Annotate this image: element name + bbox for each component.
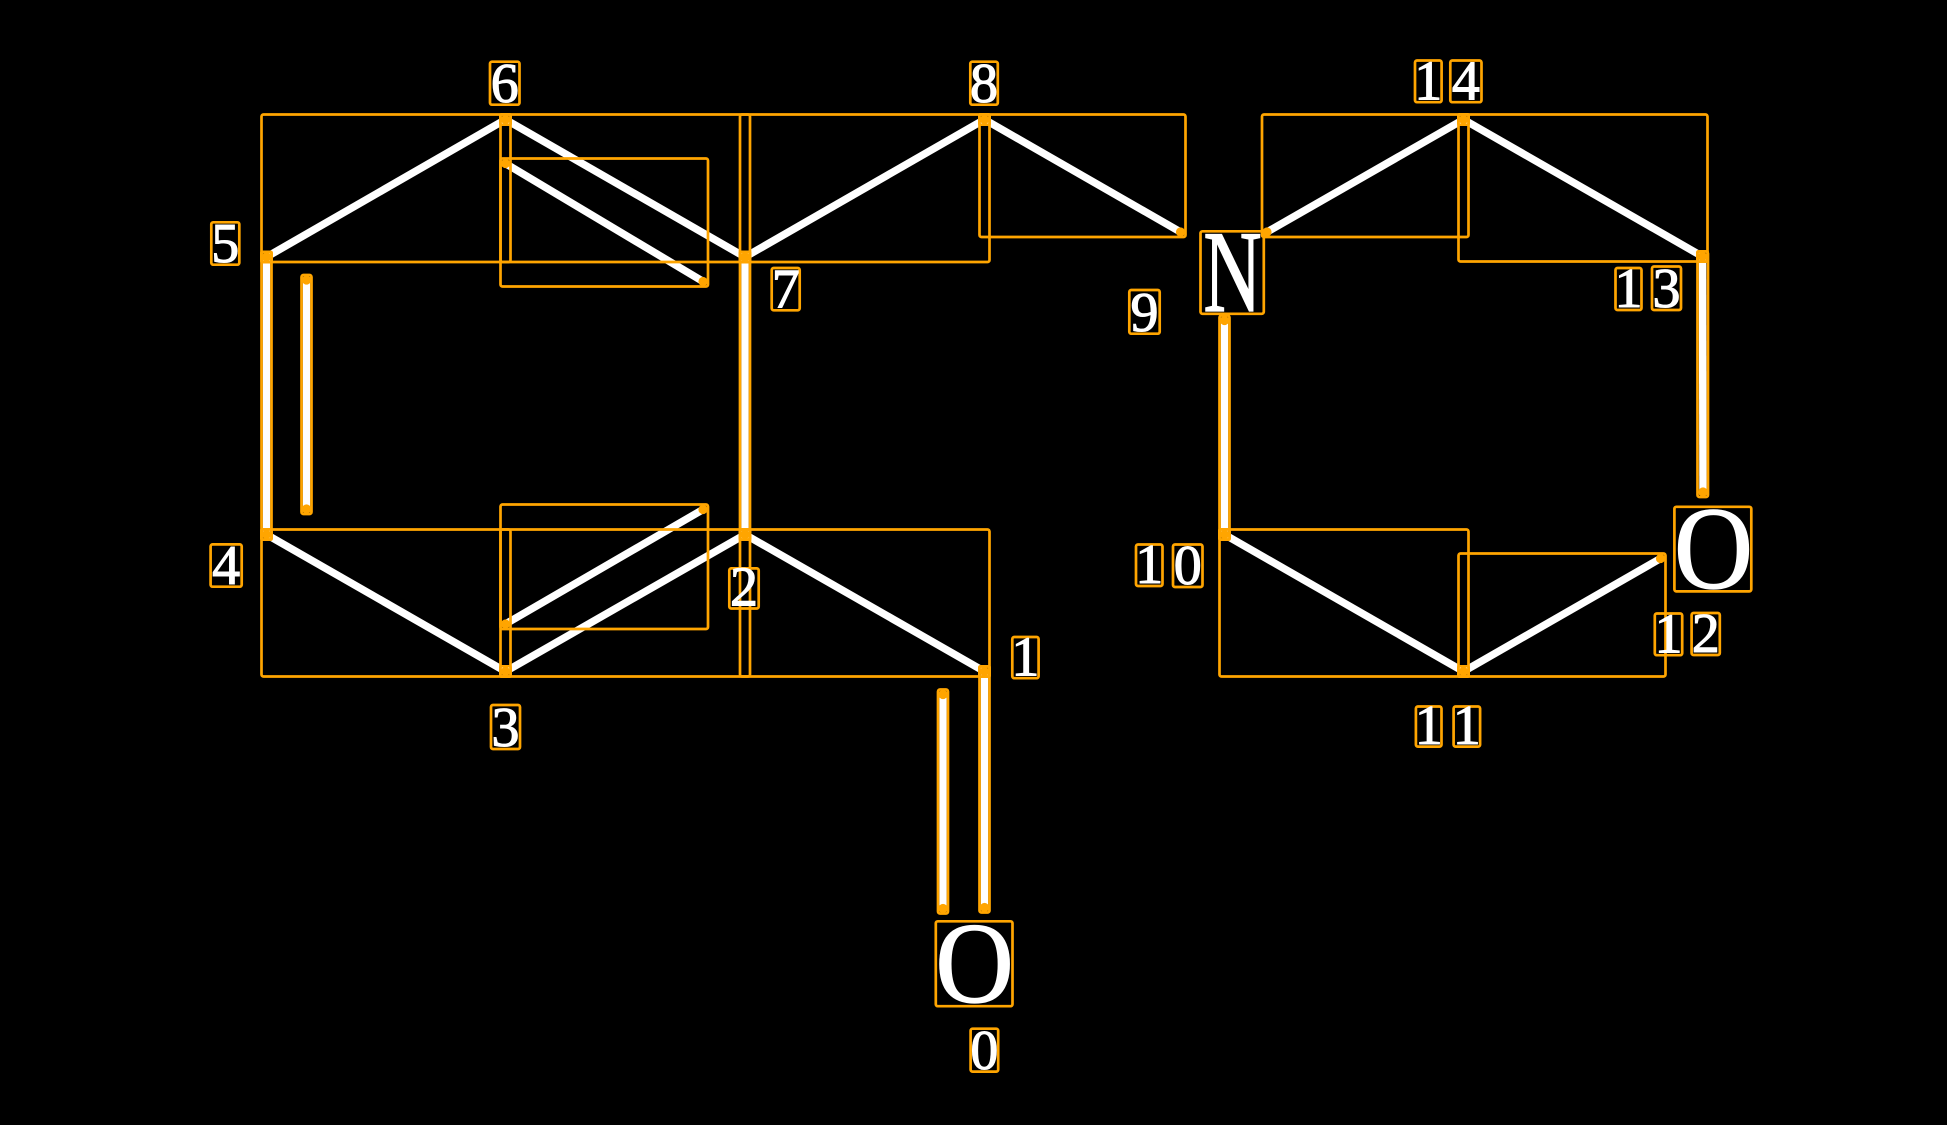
index label 1 bbox=[1011, 626, 1039, 688]
svg-text:1: 1 bbox=[1615, 258, 1643, 320]
bond 1-2 bbox=[745, 535, 985, 672]
atom 1 marker bbox=[979, 666, 989, 676]
bond 12-13 bbox=[1699, 257, 1707, 496]
svg-text:0: 0 bbox=[1174, 535, 1202, 597]
svg-text:O: O bbox=[1674, 483, 1753, 614]
svg-text:1: 1 bbox=[1655, 603, 1683, 665]
index label 11 bbox=[1415, 695, 1481, 757]
index label 2 bbox=[729, 557, 758, 619]
bond 9-10 bbox bbox=[1220, 316, 1230, 540]
bond 12-13 bbox bbox=[1698, 252, 1709, 498]
bond 11-12 start dot bbox=[1656, 554, 1665, 563]
index label 7 bbox=[772, 259, 800, 321]
bond 5-6 bbox bbox=[262, 115, 511, 263]
bond 6-7 main line bbox=[506, 120, 746, 258]
bond 0-1 inner line end dot bbox=[938, 904, 947, 913]
bond 2-3 inner line end dot bbox=[698, 505, 707, 514]
bond 6-7 main line bbox bbox=[501, 115, 751, 263]
index label 6 bbox=[490, 53, 520, 115]
atom 0 O label bbox bbox=[936, 921, 1013, 1006]
atom 10 marker bbox=[1219, 529, 1229, 539]
svg-text:1: 1 bbox=[1414, 50, 1442, 112]
atom 3 marker bbox=[500, 666, 510, 676]
bond 2-3 main line bbox bbox=[501, 530, 751, 677]
bond 13-14 bbox bbox=[1459, 115, 1708, 262]
atom 4 marker bbox=[261, 529, 271, 539]
index label 10 bbox=[1135, 534, 1202, 597]
atom 7 marker bbox=[740, 252, 750, 262]
bond 0-1 main line bbox=[981, 672, 989, 911]
bond 10-11 bbox=[1225, 535, 1464, 672]
index label 4 bbox=[211, 535, 242, 597]
svg-text:6: 6 bbox=[491, 53, 519, 115]
svg-text:4: 4 bbox=[1452, 50, 1480, 112]
svg-text:1: 1 bbox=[1011, 626, 1039, 688]
atom 12 O label bbox bbox=[1674, 507, 1751, 592]
index label 8 bbox=[970, 53, 998, 115]
atom 14 marker bbox=[1458, 114, 1468, 124]
svg-text:2: 2 bbox=[1692, 603, 1720, 665]
atom 11 marker bbox=[1458, 666, 1468, 676]
bond 3-4 bbox bbox=[262, 530, 511, 677]
bond 4-5 main line bbox bbox=[262, 252, 272, 540]
bond 4-5 inner line end dot bbox=[302, 504, 311, 513]
bond 4-5 inner line bbox bbox=[302, 275, 312, 514]
bond 4-5 main line bbox=[263, 257, 271, 535]
bond 12-13 end dot bbox=[1698, 487, 1707, 496]
svg-text:1: 1 bbox=[1135, 534, 1163, 596]
atom 6 marker bbox=[500, 114, 510, 124]
svg-text:7: 7 bbox=[772, 259, 800, 321]
bond 8-9 end dot bbox=[1176, 227, 1185, 236]
bond 0-1 inner line bbox=[939, 692, 947, 912]
bond 7-8 bbox=[745, 120, 985, 258]
atom 8 marker bbox=[979, 114, 989, 124]
svg-text:4: 4 bbox=[212, 535, 240, 597]
svg-text:5: 5 bbox=[211, 213, 239, 275]
bond 4-5 inner line start dot bbox=[302, 275, 311, 284]
svg-text:3: 3 bbox=[1653, 258, 1681, 320]
svg-text:0: 0 bbox=[970, 1020, 998, 1082]
index label 9 bbox=[1129, 282, 1159, 344]
index label 14 bbox=[1414, 50, 1481, 112]
index label 12 bbox=[1655, 603, 1720, 665]
bond 11-12 bbox=[1464, 557, 1664, 672]
bond 13-14 bbox=[1464, 120, 1703, 257]
bond 11-12 bbox bbox=[1459, 554, 1666, 677]
atom 9 N label bbox bbox=[1201, 231, 1264, 313]
bond 0-1 inner line start dot bbox=[938, 690, 947, 699]
bond 2-3 inner line start dot bbox=[501, 619, 510, 628]
bond 9-14 bbox bbox=[1262, 115, 1469, 238]
bond 8-9 bbox=[985, 120, 1184, 234]
svg-text:9: 9 bbox=[1131, 282, 1159, 344]
svg-text:1: 1 bbox=[1415, 695, 1443, 757]
bond 9-14 start dot bbox=[1262, 227, 1271, 236]
bond 6-7 inner line bbox bbox=[501, 159, 709, 287]
bond 2-3 inner line bbox=[503, 508, 706, 626]
bond 9-10 bbox=[1221, 318, 1229, 535]
svg-text:2: 2 bbox=[730, 557, 758, 619]
bond 4-5 inner line bbox=[303, 277, 311, 512]
atom 2 marker bbox=[740, 529, 750, 539]
index label 5 bbox=[211, 213, 239, 275]
index label 3 bbox=[491, 697, 520, 759]
index label 0 bbox=[970, 1020, 998, 1082]
bond 6-7 inner line end dot bbox=[698, 277, 707, 286]
bond 0-1 inner line bbox bbox=[938, 690, 948, 914]
bond 5-6 bbox=[267, 120, 506, 258]
bond 2-7 bbox=[741, 257, 749, 535]
bond 9-14 bbox=[1264, 120, 1463, 234]
bond 1-2 bbox bbox=[740, 530, 990, 677]
bond 9-10 start dot bbox=[1220, 316, 1229, 325]
svg-text:O: O bbox=[935, 900, 1013, 1028]
svg-text:N: N bbox=[1203, 207, 1261, 336]
bond 0-1 main line bbox bbox=[980, 667, 990, 913]
bond 0-1 main line end dot bbox=[980, 903, 989, 912]
svg-text:8: 8 bbox=[970, 53, 998, 115]
bond 8-9 bbox bbox=[980, 115, 1186, 238]
index label 13 bbox=[1615, 258, 1682, 320]
bond 2-3 inner line bbox bbox=[501, 505, 709, 630]
bond 10-11 bbox bbox=[1220, 530, 1469, 677]
atom 13 marker bbox=[1697, 251, 1707, 261]
atom 5 marker bbox=[261, 252, 271, 262]
bond 2-7 bbox bbox=[740, 252, 750, 540]
bond 6-7 inner line start dot bbox=[501, 159, 510, 168]
svg-text:1: 1 bbox=[1453, 695, 1481, 757]
bond 3-4 bbox=[267, 535, 506, 672]
svg-text:3: 3 bbox=[492, 697, 520, 759]
bond 7-8 bbox bbox=[740, 115, 990, 263]
bond 6-7 inner line bbox=[503, 162, 706, 283]
bond 2-3 main line bbox=[506, 535, 746, 672]
